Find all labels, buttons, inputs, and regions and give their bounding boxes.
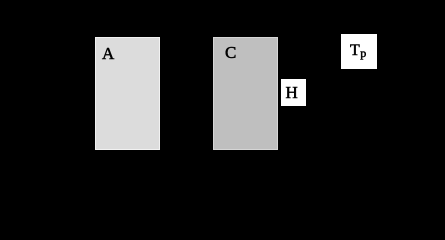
block H (white rectangle) — [281, 79, 306, 106]
label Tp — [350, 43, 366, 59]
label C — [225, 44, 236, 61]
label A — [102, 45, 114, 62]
block A (light gray rectangle) — [95, 37, 160, 150]
block Tp (white rectangle) — [341, 34, 377, 69]
label H — [286, 84, 298, 101]
block C (medium gray rectangle) — [213, 37, 278, 150]
